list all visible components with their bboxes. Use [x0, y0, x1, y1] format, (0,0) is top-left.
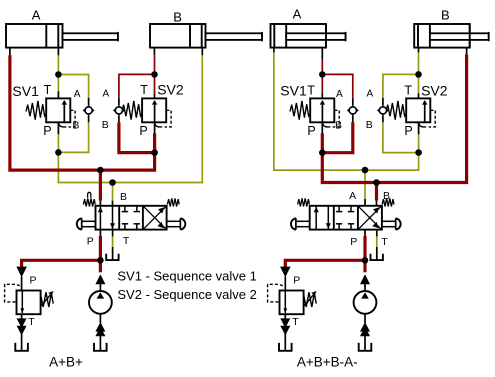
wire: SV1 T pin wire maroon thin — [321, 74, 323, 93]
svg-text:T: T — [44, 83, 52, 97]
node: cyl A rod / SV1 T junction — [55, 71, 62, 78]
node: SV2-r P junction — [415, 149, 422, 156]
DCV-left T line to tank — [112, 230, 114, 237]
svg-text:SV1: SV1 — [280, 83, 307, 99]
svg-text:B: B — [383, 190, 390, 202]
svg-text:B: B — [335, 119, 342, 131]
tank DCV-right — [371, 254, 383, 260]
wire: cyl A cap olive down to tank rail y170 — [274, 52, 419, 170]
wire: SV1 P wire — [57, 134, 59, 153]
check valve SV1 right bypass — [348, 98, 358, 123]
wire: cyl A rod to SV1 T dot maroon thin — [321, 59, 323, 74]
svg-text:SV2: SV2 — [421, 83, 448, 99]
directional valve 4/3 left — [77, 192, 186, 229]
wire: DCV B port drop — [112, 183, 114, 201]
svg-text:A+B+: A+B+ — [49, 355, 83, 370]
svg-text:P: P — [350, 236, 357, 248]
svg-text:T: T — [28, 316, 35, 328]
svg-text:A: A — [336, 89, 343, 100]
wire: SV2 bypass top olive — [383, 74, 419, 97]
svg-text:B: B — [102, 119, 109, 131]
wire: SV1 P wire thick — [321, 134, 324, 153]
svg-text:P: P — [139, 124, 147, 138]
push button left — [295, 218, 297, 229]
push button right — [179, 218, 181, 229]
wire: cyl B cap to SV2 T junction maroon thin — [154, 55, 156, 93]
tank DCV-left — [106, 254, 118, 260]
node: SV2 P junction — [151, 149, 158, 156]
svg-text:P: P — [293, 274, 300, 286]
svg-text:T: T — [292, 316, 299, 328]
svg-text:P: P — [43, 124, 51, 138]
node: DCV-right A port junction — [362, 167, 369, 174]
node: DCV-left A port junction — [97, 167, 104, 174]
wire: olive tank rail y182.5 — [58, 55, 202, 182]
svg-text:SV2 - Sequence valve 2: SV2 - Sequence valve 2 — [117, 287, 256, 302]
svg-text:SV2: SV2 — [157, 81, 184, 97]
wire: SV1 bypass top maroon thin — [322, 74, 353, 97]
wire: SV1 bypass top — [58, 75, 88, 98]
pin: SV1-r P — [321, 122, 323, 134]
left square arrows P to A, B to T — [99, 206, 101, 230]
svg-text:A: A — [293, 7, 302, 22]
pin: DCV-right P — [364, 230, 366, 237]
wire: DCV P to pressure dot thick — [363, 236, 366, 260]
check valve SV2 bypass — [114, 98, 124, 123]
wire: DCV T port olive segment — [112, 236, 114, 247]
sequence valve SV1 right — [290, 93, 339, 127]
pin: DCV-left P — [99, 230, 101, 237]
DCV-right T line to tank — [376, 230, 378, 237]
node: cyl B cap / SV2-r T junction — [415, 71, 422, 78]
svg-text:A+B+B-A-: A+B+B-A- — [297, 355, 358, 370]
node: cyl A rod / SV1-r T junction — [319, 71, 326, 78]
svg-text:P: P — [87, 236, 94, 248]
wire: DCV A port maroon thick — [99, 170, 102, 201]
relief valve right — [268, 267, 317, 351]
svg-text:B: B — [72, 119, 79, 131]
node: DCV-right B port junction — [373, 179, 380, 186]
wire: pressure thick - cyl A cap down, rail y170, up to SV2 P dot — [10, 55, 155, 170]
spring right — [382, 198, 394, 206]
svg-text:A: A — [367, 89, 374, 100]
pump left — [89, 274, 112, 351]
svg-text:B: B — [441, 8, 450, 23]
svg-text:B: B — [173, 10, 182, 25]
spring left — [83, 198, 95, 206]
wire: DCV B port drop thick — [375, 183, 378, 201]
wire: pressure rail y182.5 thick to cyl B rod — [322, 54, 466, 182]
wire: SV2 bypass top maroon thin — [119, 74, 155, 97]
wire: DCV T port olive segment — [376, 236, 378, 247]
cylinder A right body (retracted) — [271, 24, 346, 59]
check valve SV2 right bypass — [378, 98, 388, 123]
directional valve 4/3 right — [291, 198, 401, 229]
pin: SV2 P — [154, 122, 156, 134]
svg-text:T: T — [404, 83, 412, 97]
svg-text:B: B — [120, 191, 127, 203]
svg-text:P: P — [307, 124, 315, 138]
wire: SV1 T pin wire — [57, 75, 59, 92]
node: SV1 P junction — [55, 149, 62, 156]
node: pump-right pressure junction — [362, 257, 369, 264]
wire: SV2 bypass bottom olive — [383, 122, 419, 152]
svg-text:A: A — [103, 89, 110, 100]
cylinder B right body (retracted) — [414, 24, 489, 54]
wire: DCV P to pressure dot thick — [99, 236, 102, 260]
svg-text:A: A — [32, 7, 41, 22]
svg-text:P: P — [404, 124, 412, 138]
svg-text:T: T — [123, 235, 130, 247]
svg-text:SV1: SV1 — [12, 83, 39, 99]
svg-text:A: A — [349, 190, 356, 202]
spring left — [298, 198, 310, 206]
svg-text:B: B — [366, 119, 373, 131]
right square crossed arrows — [359, 207, 381, 229]
wire: pressure dot to pump thick — [99, 260, 102, 272]
wire: pressure rail to relief valve right thick — [285, 260, 365, 267]
node: cyl B cap / SV2 T junction — [151, 71, 158, 78]
left square arrows — [315, 206, 317, 230]
svg-text:T: T — [307, 84, 315, 98]
relief valve left — [5, 267, 54, 351]
wire: pressure dot to pump right thick — [363, 260, 366, 272]
check valve SV1 bypass — [84, 98, 94, 123]
wire: tank net olive, cyl A rod to SV1 T — [57, 55, 59, 74]
right square crossed arrows — [144, 207, 166, 229]
wire: cyl B cap to SV2 T dot olive — [418, 52, 420, 74]
push button right — [395, 218, 397, 229]
sequence valve SV1 — [26, 91, 75, 134]
spring right — [167, 198, 179, 206]
wire: SV2 T pin wire olive — [418, 74, 420, 93]
pump right — [354, 274, 377, 351]
push button left — [81, 218, 83, 229]
svg-text:A: A — [74, 89, 81, 100]
wire: SV2 P dot to bypass bottom thick — [119, 122, 155, 152]
wire: SV1 bypass bottom — [58, 122, 88, 152]
node: SV1-r P junction — [319, 149, 326, 156]
sequence valve SV2 — [122, 93, 171, 127]
sequence valve SV2 right — [386, 93, 435, 134]
wire: SV1 bypass bottom thick — [322, 122, 353, 152]
cylinder A body — [6, 24, 118, 55]
svg-text:SV1 - Sequence valve 1: SV1 - Sequence valve 1 — [117, 268, 256, 283]
wire: SV2 P wire olive — [418, 134, 420, 153]
wire: pressure rail to relief valve thick — [22, 260, 101, 267]
cylinder B body — [150, 24, 262, 55]
svg-text:T: T — [140, 83, 148, 97]
middle square closed center T stubs — [338, 206, 340, 212]
svg-text:P: P — [30, 274, 37, 286]
node: pump-left pressure junction — [97, 257, 104, 264]
wire: SV2 P wire thick — [153, 134, 156, 153]
middle square closed center T stubs — [124, 206, 126, 212]
svg-text:T: T — [381, 236, 388, 248]
node: DCV-left B port junction — [109, 179, 116, 186]
wire: DCV A port drop olive — [364, 170, 366, 199]
